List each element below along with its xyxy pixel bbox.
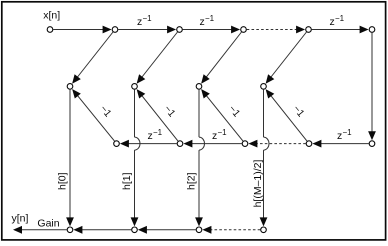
- svg-text:z: z: [337, 130, 342, 142]
- svg-text:y[n]: y[n]: [12, 213, 29, 225]
- svg-text:−1: −1: [143, 14, 153, 23]
- svg-text:z: z: [330, 16, 335, 28]
- svg-text:z: z: [137, 16, 142, 28]
- svg-text:z: z: [200, 16, 205, 28]
- svg-text:h[2]: h[2]: [186, 172, 198, 190]
- svg-text:−1: −1: [218, 128, 228, 137]
- svg-text:h[1]: h[1]: [121, 172, 133, 190]
- svg-text:−1: −1: [343, 128, 353, 137]
- svg-text:−1: −1: [153, 128, 163, 137]
- svg-text:x[n]: x[n]: [43, 10, 60, 22]
- svg-text:z: z: [212, 130, 217, 142]
- svg-text:−1: −1: [335, 14, 345, 23]
- svg-text:h[(M–1)/2]: h[(M–1)/2]: [252, 159, 264, 207]
- svg-text:z: z: [148, 130, 153, 142]
- svg-text:−1: −1: [205, 14, 215, 23]
- svg-text:Gain: Gain: [37, 218, 59, 230]
- svg-text:h[0]: h[0]: [57, 172, 69, 190]
